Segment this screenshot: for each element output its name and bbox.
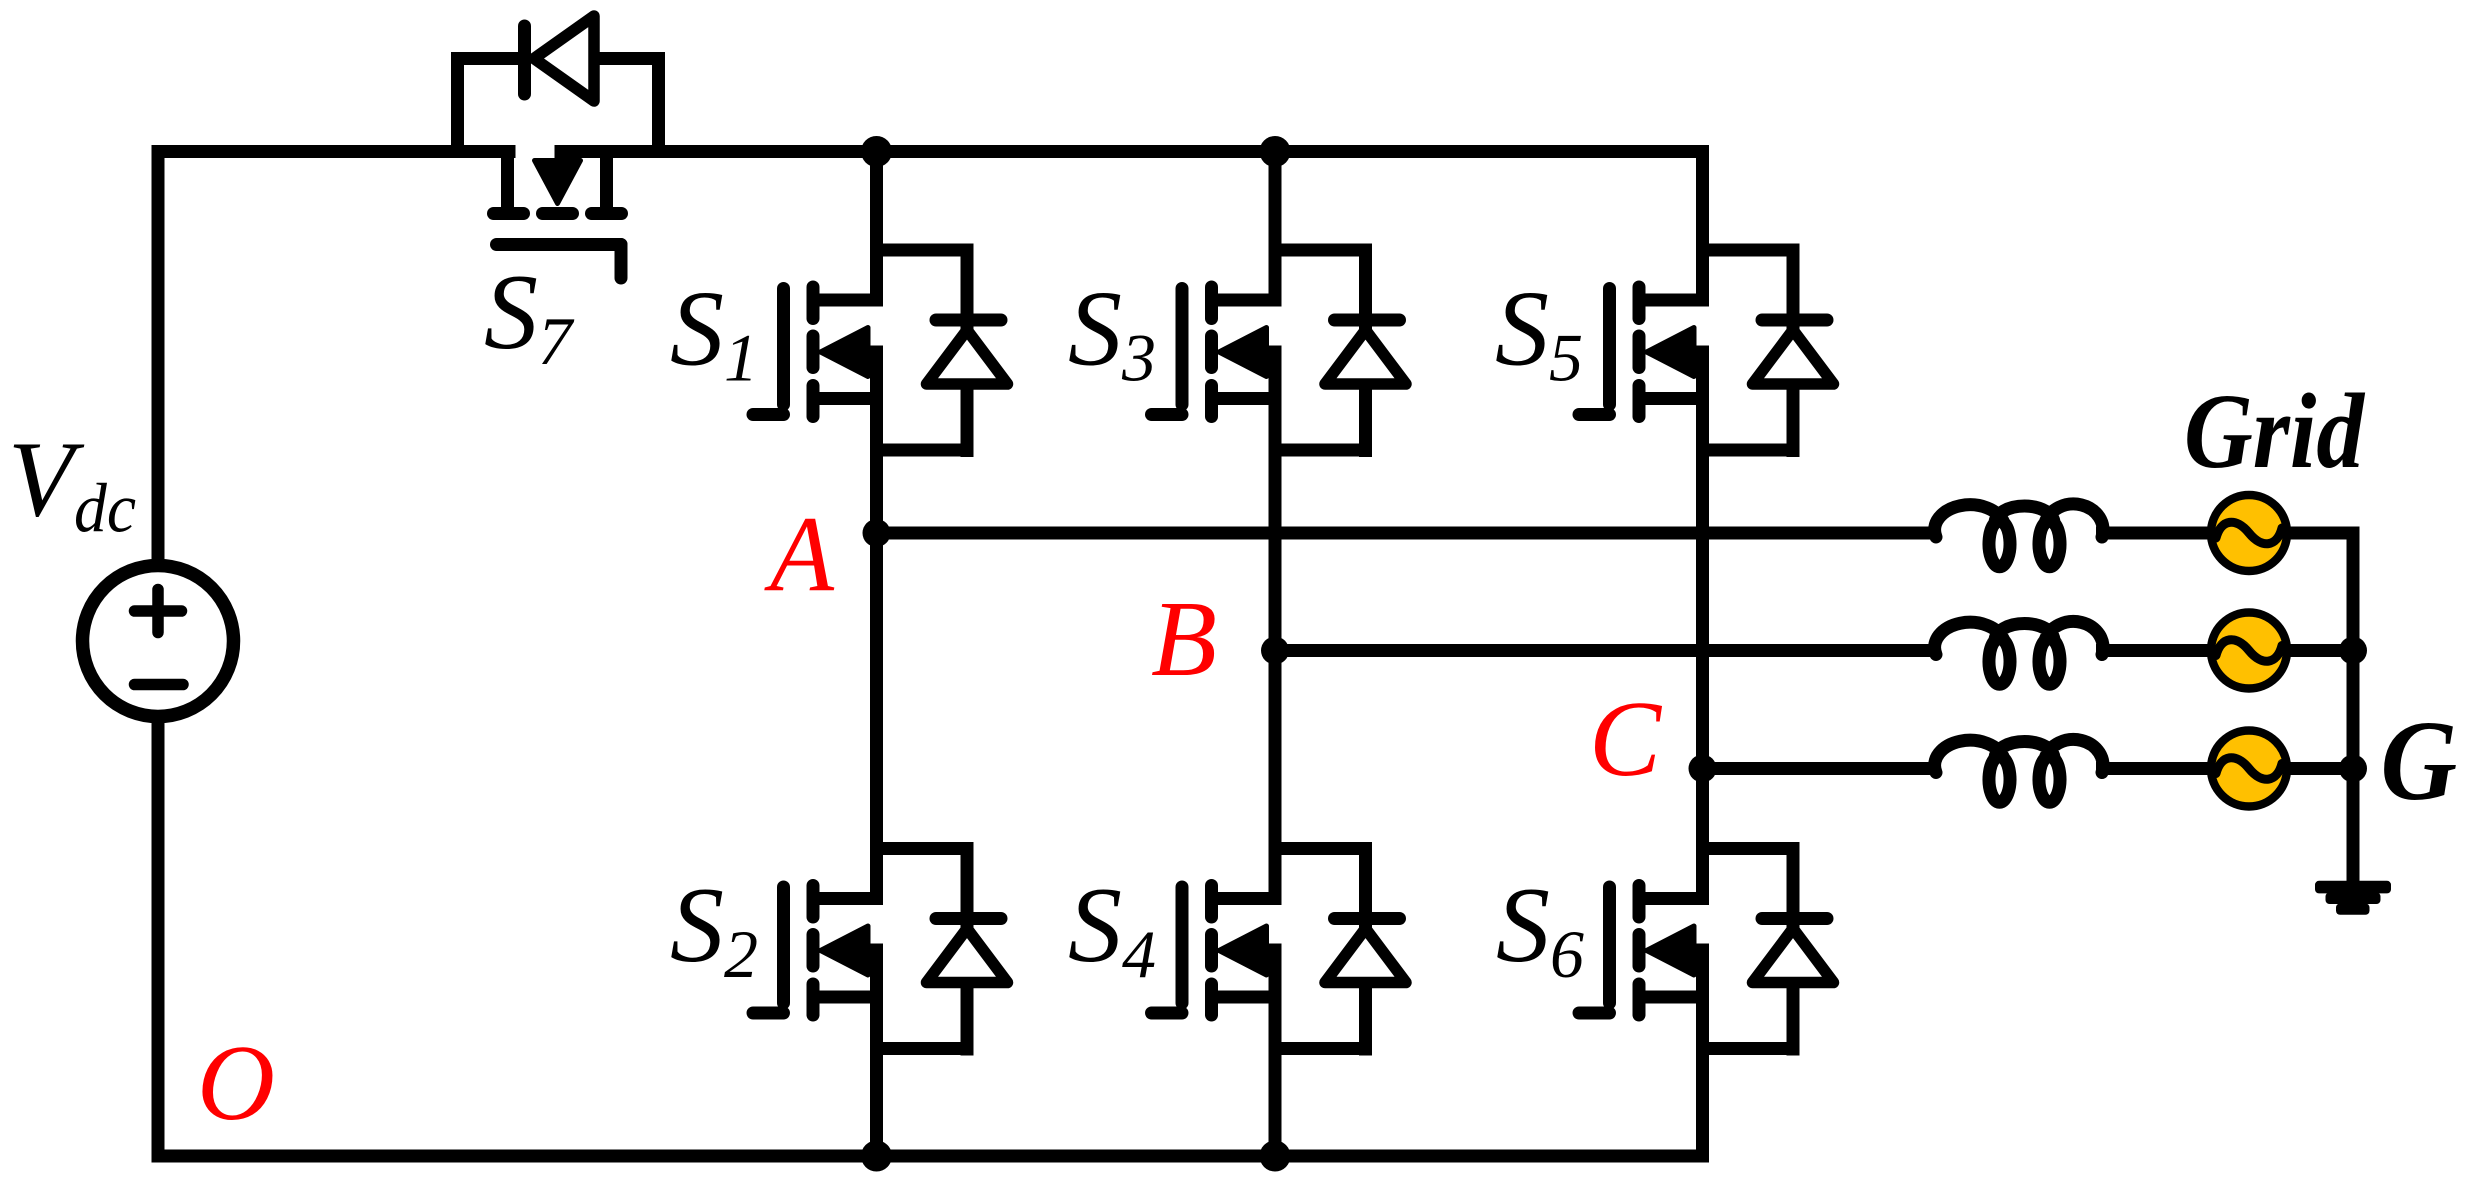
inductor Lc	[1935, 739, 2103, 802]
node C junction dot	[1689, 755, 1717, 783]
S7 channel dash right	[592, 207, 622, 220]
wire: top bus left segment (left rail to S7 drain)	[152, 145, 516, 158]
wire: bottom bus (node O rail)	[152, 1150, 1710, 1163]
svg-text:G: G	[2381, 698, 2458, 824]
dc source V1 circle	[83, 566, 234, 717]
svg-text:S2: S2	[670, 866, 758, 992]
wire: source to right bus	[2287, 644, 2360, 657]
wire: La to source	[2096, 527, 2211, 540]
wire: left rail vertical	[152, 145, 165, 1163]
svg-text:S6: S6	[1496, 866, 1584, 992]
svg-text:C: C	[1589, 680, 1663, 799]
wire: right vertical bus (neutral)	[2347, 527, 2360, 882]
plus sign	[135, 605, 182, 617]
transistor S5 (MOSFET with antiparallel diode)	[1579, 244, 1834, 458]
ac source phase C	[2211, 731, 2287, 807]
ac source phase B	[2211, 613, 2287, 689]
svg-text:S5: S5	[1495, 270, 1583, 396]
junction dot neutral / phase B	[2339, 637, 2367, 665]
wire: leg A bottom (S2 source to bottom bus)	[870, 944, 883, 1163]
wire: source to right bus	[2287, 762, 2360, 775]
wire: top bus right segment (S7 source to leg C corner)	[555, 145, 1709, 158]
svg-text:A: A	[764, 495, 835, 614]
ac source phase A	[2211, 495, 2287, 571]
S7 right lead	[600, 151, 613, 214]
transistor S7 (horizontal MOSFET) left lead	[501, 151, 514, 214]
svg-text:S4: S4	[1068, 866, 1156, 992]
wire: leg C bottom	[1696, 944, 1709, 1163]
S7 source stub	[555, 145, 568, 161]
S7 gate bar	[497, 238, 622, 251]
wire: leg B mid (S3 source to node B)	[1269, 346, 1282, 658]
wire: Lb to source	[2096, 644, 2211, 657]
S7 bypass diode triangle (points left)	[534, 16, 594, 101]
S7 bypass diode loop left vertical	[451, 52, 464, 152]
svg-text:Vdc: Vdc	[8, 421, 136, 548]
wire: leg B bottom	[1269, 944, 1282, 1163]
S7 channel dash middle	[543, 207, 573, 220]
junction dot top bus / leg A	[861, 136, 892, 167]
inductor La	[1935, 504, 2103, 567]
wire: leg C mid (S5 source to node C)	[1696, 346, 1709, 776]
junction dot bottom bus / leg B	[1260, 1141, 1291, 1172]
junction dot neutral / phase C (node G)	[2339, 755, 2367, 783]
junction dot bottom bus / leg A	[861, 1141, 892, 1172]
wire: leg A mid (S1 source to node A)	[870, 346, 883, 540]
wire: Lc to source	[2096, 762, 2211, 775]
transistor S4 (MOSFET with antiparallel diode)	[1152, 842, 1407, 1056]
wire: leg B lower (node B to S4 drain)	[1269, 644, 1282, 905]
svg-text:S7: S7	[484, 253, 575, 379]
ground symbol bar 3	[2336, 904, 2370, 915]
S7 body arrow (points down)	[535, 161, 581, 204]
svg-text:S3: S3	[1068, 270, 1156, 396]
ground symbol bar 1	[2315, 881, 2391, 894]
S7 gate foot	[615, 245, 628, 279]
wire: leg C lower (node C to S6 drain)	[1696, 762, 1709, 905]
wire: node B to inductor Lb	[1275, 644, 1936, 657]
transistor S1 (MOSFET with antiparallel diode)	[753, 244, 1008, 458]
transistor S6 (MOSFET with antiparallel diode)	[1579, 842, 1834, 1056]
wire: leg C top	[1696, 145, 1709, 307]
svg-text:Grid: Grid	[2184, 373, 2365, 491]
wire: leg B top	[1269, 145, 1282, 307]
node A junction dot	[863, 519, 891, 547]
S7 bypass diode loop right vertical	[652, 52, 665, 152]
label G	[2381, 698, 2458, 824]
S7 bypass diode cathode bar	[518, 26, 531, 94]
inductor Lb	[1935, 621, 2103, 684]
transistor S3 (MOSFET with antiparallel diode)	[1152, 244, 1407, 458]
wire: source to right bus	[2287, 527, 2360, 540]
wire: leg A top (bus to S1 drain)	[870, 145, 883, 307]
junction dot top bus / leg B	[1260, 136, 1291, 167]
svg-text:O: O	[197, 1024, 275, 1143]
minus sign	[135, 679, 184, 691]
S7 bypass diode loop top wire	[451, 52, 531, 65]
svg-text:S1: S1	[670, 270, 758, 396]
ground symbol bar 2	[2326, 892, 2381, 904]
wire: leg A lower (node A to S2 drain)	[870, 527, 883, 906]
node B junction dot	[1261, 637, 1289, 665]
svg-text:B: B	[1151, 580, 1217, 699]
S7 channel dash left	[494, 207, 524, 220]
wire: node C to inductor Lc	[1703, 762, 1937, 775]
transistor S2 (MOSFET with antiparallel diode)	[753, 842, 1008, 1056]
wire: node A to inductor La	[877, 527, 1937, 540]
